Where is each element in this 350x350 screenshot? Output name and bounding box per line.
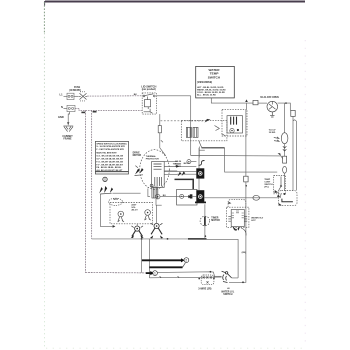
svg-text:TIMER: TIMER [211, 217, 218, 219]
svg-text:F-S - BK-WT 2B-WT, BK-GN: F-S - BK-WT 2B-WT, BK-GN [96, 161, 123, 163]
connector B2 [291, 110, 295, 116]
svg-text:CABINET: CABINET [62, 135, 73, 138]
temp cont arrow [274, 190, 278, 193]
wire level switch right leads [229, 278, 243, 282]
water valve dashed box V [222, 109, 247, 136]
svg-text:MAIN TML BRN WHT: MAIN TML BRN WHT [96, 151, 117, 154]
junction J1 [81, 112, 85, 114]
junction dot plug top [210, 271, 212, 273]
capacitor block under motor [150, 184, 158, 198]
svg-text:PA - BK-BL 2B-BL, BK-BL: PA - BK-BL 2B-BL, BK-BL [96, 166, 122, 169]
valve V2 pointer arrows [274, 137, 279, 141]
wire solenoid B feed [156, 205, 158, 224]
heavy cord line mid [149, 266, 182, 268]
wire left long vertical A [84, 110, 86, 272]
connector P1 [67, 93, 74, 99]
junction dot [285, 102, 287, 104]
wire N lead [64, 107, 68, 109]
link arrowhead [205, 119, 211, 123]
wire resistor down [160, 133, 166, 156]
motor to timer wires [164, 162, 177, 175]
lid switch S1 dashed box [142, 93, 156, 114]
water level switch left lead [214, 275, 222, 277]
wire fuse to lid switch [87, 95, 142, 97]
connector P2 [67, 105, 75, 111]
wire to dome [284, 173, 286, 191]
unbalance switch ground arrow [270, 112, 274, 117]
temp cont contact [278, 177, 282, 192]
wire below valve V2 [284, 144, 286, 157]
wire contacts to motor [112, 192, 140, 194]
wire solenoid A feed [136, 224, 138, 226]
svg-text:GND: GND [58, 115, 64, 119]
section contact circle [180, 194, 184, 198]
feed arrow [245, 99, 248, 102]
tick marks [160, 276, 180, 278]
svg-text:F-F - BK-WT 2B-WT, BK-WT: F-F - BK-WT 2B-WT, BK-WT [96, 164, 123, 166]
hanging solenoid B node 3 [150, 223, 163, 238]
wire unbalance to right column [278, 103, 291, 110]
coil K1 [186, 127, 191, 137]
svg-text:SPEED SWITCH (CLOCKWISE): SPEED SWITCH (CLOCKWISE) [96, 143, 126, 145]
timer contact dashed box T [181, 120, 227, 140]
svg-text:DRIVE: DRIVE [133, 153, 140, 155]
wig-wag dashed box [110, 203, 153, 224]
scan left edge dotted [43, 2, 45, 33]
drive motor dashed ellipse [140, 150, 170, 190]
node circle 1 below legend [103, 177, 107, 181]
wire node1 to plug [158, 272, 215, 279]
wire vertical 149 [148, 239, 150, 278]
svg-text:S-S - BK-GN 2B-GN, BK-GN: S-S - BK-GN 2B-GN, BK-GN [96, 156, 123, 158]
power plug dashed outline [201, 275, 214, 285]
valve inner box [227, 116, 243, 133]
heavy bus bar [175, 179, 194, 189]
wire to fuse [74, 95, 79, 97]
wire down then right to temp cont [225, 148, 278, 172]
timer motor circle [200, 216, 210, 226]
wire vertical below box corner [141, 239, 143, 273]
svg-text:ALL - BK-BL 30-RD: ALL - BK-BL 30-RD [197, 93, 216, 96]
svg-text:2B-GY: 2B-GY [131, 210, 138, 212]
coil K2 [193, 127, 198, 137]
resistor R1 [158, 126, 161, 133]
svg-text:WATER LVL: WATER LVL [221, 290, 235, 293]
connector X1 [244, 176, 248, 182]
long vertical wire lower [243, 182, 246, 282]
wire row1 [191, 161, 197, 163]
svg-text:MTR: MTR [114, 199, 119, 201]
svg-text:HOT: HOT [251, 220, 256, 222]
node circle 1 [153, 271, 158, 276]
junction arrow mark [278, 153, 281, 156]
thermal protector contacts [135, 168, 144, 175]
chevrons [283, 146, 287, 151]
hot valve bottom arrows [233, 227, 240, 231]
wire N run [75, 108, 142, 110]
svg-text:3-WIRE (2R): 3-WIRE (2R) [198, 288, 211, 290]
long bottom thin wire [149, 276, 221, 279]
svg-text:(IN BK/PK): (IN BK/PK) [69, 90, 81, 92]
wire row3 [160, 196, 196, 198]
svg-text:(PC): (PC) [264, 187, 269, 189]
junction dots on bottom wire [141, 235, 207, 240]
valve coil V2 circle [281, 133, 288, 144]
wig-wag solenoid 1 [118, 211, 124, 222]
water temp switch box [196, 66, 235, 98]
terminal block TB1 [196, 168, 204, 178]
scan right edge dots [304, 40, 306, 345]
scan top edge line [45, 1, 305, 3]
motor winding box [152, 162, 165, 188]
svg-text:LID SWITCH: LID SWITCH [141, 84, 156, 88]
winding marks [154, 164, 162, 186]
section dark mark [190, 194, 193, 198]
contact marks in box T [215, 126, 226, 137]
svg-text:N: N [61, 105, 63, 109]
dome L mark [282, 199, 293, 202]
wig-wag cam dashed ellipse [109, 198, 123, 205]
big box bottom wire [92, 238, 207, 240]
heavy bar under TB2 [195, 201, 206, 203]
inline oval component [253, 195, 260, 200]
speed switch legend rows [96, 143, 126, 172]
connector B1 [253, 100, 258, 104]
cord arrowhead 2 [181, 258, 185, 262]
hanging solenoid A [131, 226, 144, 238]
plug prongs [203, 276, 212, 283]
dome dot [284, 193, 286, 195]
svg-text:PROTECTOR: PROTECTOR [146, 158, 160, 160]
water level switch arm [222, 271, 232, 282]
wire valve feed [245, 103, 247, 109]
junction dot [245, 185, 247, 187]
ground branch wire [68, 112, 69, 126]
hot valve dashed box [227, 207, 249, 227]
thermistor oval [283, 166, 287, 173]
speed switch contact arrows [99, 186, 113, 194]
pressure dome [279, 191, 298, 206]
hot valve upper dashed body [228, 200, 246, 207]
svg-text:MOTOR: MOTOR [211, 220, 220, 222]
wire right column inner [292, 116, 294, 190]
node circle 2 [184, 258, 189, 263]
junction J2 [93, 111, 97, 113]
wire lid switch down vertical [190, 96, 192, 156]
fuse F1 [79, 92, 87, 101]
motor terminal circle [155, 194, 160, 199]
wire left long vertical B [91, 110, 93, 239]
hot valve inner box [231, 210, 244, 227]
svg-text:MOTOR: MOTOR [133, 155, 142, 157]
hot valve body arrow [228, 202, 231, 204]
stub wire [199, 147, 205, 158]
contact circle row1 [187, 160, 191, 164]
row3 arrow [188, 195, 192, 198]
svg-text:S - SLOW SPIN AGITATE SPD: S - SLOW SPIN AGITATE SPD [96, 145, 125, 148]
S mark [199, 161, 205, 166]
heavy wire to temp valve [202, 147, 225, 149]
svg-text:1: 1 [154, 272, 156, 276]
wire row mid [164, 165, 196, 167]
wire box T drop [199, 141, 202, 148]
wire dots [198, 278, 214, 280]
wire into node1 heavy [146, 272, 151, 274]
lid switch contacts [143, 94, 155, 113]
wire lid run to right [191, 156, 283, 159]
wire motor bottom left [148, 189, 150, 197]
wire temp switch down [211, 98, 253, 103]
wig-wag solenoid 2 [145, 210, 151, 220]
wire A bottom run [85, 272, 145, 274]
wire valve V2 drop [284, 103, 286, 133]
wire motor bottom to contact row [157, 189, 159, 194]
wire under motor L path [156, 199, 162, 205]
lower switch section box [177, 189, 197, 205]
wire L1 lead [64, 95, 68, 97]
hot valve side hatches [228, 217, 247, 222]
hot valve dot [235, 229, 237, 231]
ground symbol [63, 126, 73, 132]
resistor R2 [283, 156, 287, 163]
speed switch legend box [95, 141, 128, 174]
temp cont exit wire [279, 194, 282, 198]
svg-text:(par pushed): (par pushed) [142, 89, 156, 91]
svg-text:FRAME: FRAME [63, 138, 72, 141]
contact triangles [178, 171, 186, 176]
svg-text:30-WD: 30-WD [269, 132, 276, 134]
wire right column outer loop [293, 120, 296, 191]
hot valve exit wire [241, 228, 246, 236]
tick mark [161, 140, 163, 142]
junction dot [242, 281, 244, 283]
heavy cord line 2 top [142, 259, 181, 261]
node1 arrowhead [150, 271, 153, 275]
wire to unbalance switch [258, 102, 267, 104]
cord mid diagonal [183, 263, 186, 267]
unbalance switch M1 circle [267, 101, 278, 112]
wire contacts down [100, 194, 112, 226]
svg-text:ALL BK-GN 2B-WT, BK-WT: ALL BK-GN 2B-WT, BK-WT [96, 169, 123, 172]
wire lid switch to right [156, 95, 190, 97]
svg-text:(2B): (2B) [242, 252, 246, 254]
svg-text:60-41-OFF OPEN: 60-41-OFF OPEN [260, 96, 279, 99]
svg-text:SWITCH: SWITCH [208, 76, 221, 80]
wire TB1 feed [198, 148, 200, 190]
mechanical dashed link [161, 120, 205, 122]
temp cont switch dashed box [274, 176, 286, 194]
heavy segment of bottom wire [188, 238, 207, 240]
svg-text:F - FAST SPIN AGITATE SPD: F - FAST SPIN AGITATE SPD [96, 148, 124, 151]
wire y198 run right [204, 197, 278, 199]
svg-text:SWITCH: SWITCH [223, 294, 232, 296]
svg-text:BU: BU [163, 195, 167, 197]
scan bottom edge dots [46, 347, 304, 349]
wire row2 [177, 173, 196, 175]
svg-text:S-F - BK-GN 2B-GN, BK-WT: S-F - BK-GN 2B-GN, BK-WT [96, 159, 123, 161]
svg-text:BK: BK [134, 94, 138, 96]
svg-text:(VIEW-RINSE): (VIEW-RINSE) [197, 82, 212, 84]
terminal block TB2 [196, 190, 204, 203]
bottom wire thin extension [207, 239, 239, 278]
arrowhead [113, 225, 116, 228]
wire lid switch bottom exit [159, 114, 161, 126]
svg-text:2: 2 [185, 259, 187, 263]
dome arrow [278, 203, 281, 205]
long vertical wire center-right [245, 110, 247, 176]
valve inner parts [230, 117, 239, 133]
junction arrow near dome [277, 194, 280, 197]
timer motor wire [204, 204, 206, 239]
